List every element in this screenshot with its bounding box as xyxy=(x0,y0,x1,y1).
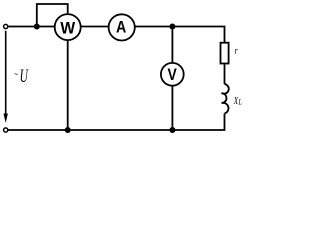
svg-text:~: ~ xyxy=(14,69,18,79)
svg-text:L: L xyxy=(238,96,242,106)
svg-text:W: W xyxy=(60,19,75,38)
svg-text:U: U xyxy=(20,67,29,87)
svg-text:A: A xyxy=(116,19,126,37)
svg-text:X: X xyxy=(233,95,239,106)
svg-text:r: r xyxy=(235,45,238,58)
svg-text:V: V xyxy=(168,66,178,85)
